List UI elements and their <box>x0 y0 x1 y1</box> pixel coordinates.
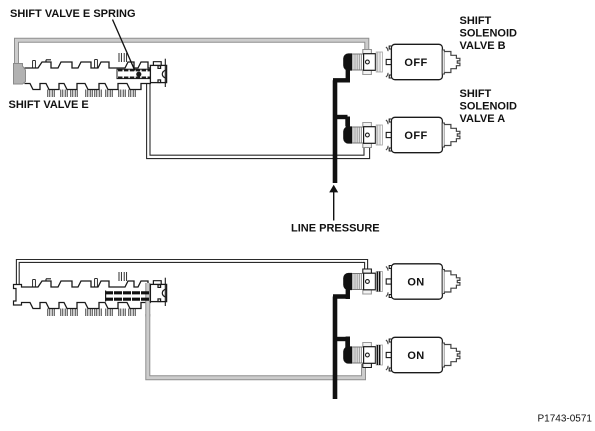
svg-text:ON: ON <box>407 277 424 289</box>
svg-text:P1743-0571: P1743-0571 <box>538 414 593 425</box>
svg-text:SOLENOID: SOLENOID <box>460 28 518 40</box>
svg-text:VALVE A: VALVE A <box>460 113 506 125</box>
svg-text:SHIFT VALVE E SPRING: SHIFT VALVE E SPRING <box>10 8 136 20</box>
svg-text:OFF: OFF <box>404 57 427 69</box>
svg-text:SHIFT VALVE E: SHIFT VALVE E <box>9 99 89 111</box>
svg-text:SHIFT: SHIFT <box>460 88 492 100</box>
svg-text:SHIFT: SHIFT <box>460 15 492 27</box>
svg-text:OFF: OFF <box>404 130 427 142</box>
svg-text:SOLENOID: SOLENOID <box>460 101 518 113</box>
svg-text:ON: ON <box>407 350 424 362</box>
svg-text:LINE PRESSURE: LINE PRESSURE <box>291 223 380 235</box>
svg-text:VALVE B: VALVE B <box>460 40 506 52</box>
